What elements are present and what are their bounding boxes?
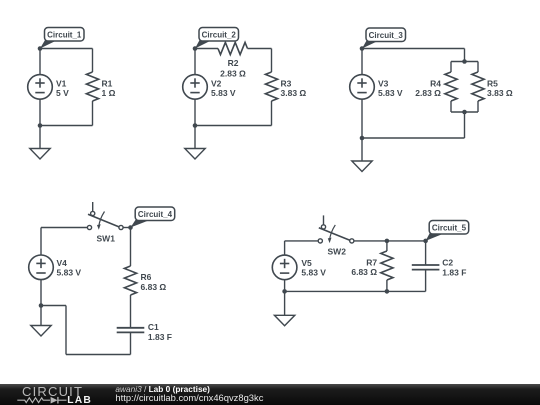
wire c4 V4 bottom lead — [40, 280, 42, 306]
wire c3 R4 bottom lead — [450, 101, 452, 112]
svg-text:http://circuitlab.com/cnx46qvz: http://circuitlab.com/cnx46qvz8g3kc — [115, 392, 263, 403]
wire c3 par top stub — [451, 61, 478, 63]
junction c1 bottom-left — [38, 123, 43, 128]
wire c4 bottom vert — [65, 306, 67, 355]
svg-text:V5: V5 — [301, 258, 312, 268]
junction c5 bottom-left — [282, 289, 287, 294]
wire c2 V2 top lead — [194, 49, 196, 76]
wire c3 V3 top lead — [361, 49, 363, 76]
wire c5 C2 bottom lead — [425, 270, 427, 292]
svg-text:3.83 Ω: 3.83 Ω — [487, 88, 513, 98]
voltage source V4 — [29, 255, 54, 280]
resistor R6 body — [124, 266, 136, 295]
wire c5 C2 top lead — [425, 241, 427, 265]
svg-text:1.83 F: 1.83 F — [442, 267, 466, 277]
svg-text:Circuit_2: Circuit_2 — [202, 30, 237, 39]
wire c1 bottom — [40, 125, 93, 127]
wire c4 R6 top lead — [130, 228, 132, 267]
wire c4 top — [41, 227, 87, 229]
wire c5 ground lead — [284, 291, 286, 315]
svg-text:SW2: SW2 — [328, 247, 347, 257]
svg-text:R2: R2 — [228, 58, 239, 68]
svg-text:Circuit_5: Circuit_5 — [432, 223, 467, 232]
svg-text:2.83 Ω: 2.83 Ω — [415, 88, 441, 98]
svg-text:C1: C1 — [148, 322, 159, 332]
wire c2 bottom — [195, 125, 272, 127]
svg-text:5 V: 5 V — [56, 88, 69, 98]
wire c3 ground lead — [361, 138, 363, 161]
svg-text:R4: R4 — [430, 78, 441, 88]
svg-text:R7: R7 — [366, 257, 377, 267]
wire c1 R1 bottom lead — [92, 101, 94, 126]
wire c5 V5 top lead — [284, 241, 286, 255]
wire c5 bottom — [285, 290, 426, 292]
wire c3 top — [362, 48, 465, 50]
wire c1 ground lead — [39, 126, 41, 149]
label callout Circuit_4 — [131, 207, 175, 228]
wire c3 R5 top lead — [477, 62, 479, 73]
wire c3 bottom — [362, 137, 465, 139]
wire c1 top — [40, 48, 93, 50]
svg-text:3.83 Ω: 3.83 Ω — [281, 88, 307, 98]
junction c3 top-left — [360, 46, 365, 51]
label callout Circuit_1 — [40, 28, 84, 49]
svg-text:5.83 V: 5.83 V — [57, 268, 82, 278]
wire c5 R7 bottom lead — [386, 280, 388, 291]
junction c2 bottom-left — [193, 123, 198, 128]
junction c1 top-left — [38, 46, 43, 51]
label callout Circuit_5 — [426, 221, 469, 241]
junction c2 top-left — [193, 46, 198, 51]
ground c4 — [31, 326, 51, 337]
svg-text:1.83 F: 1.83 F — [148, 332, 172, 342]
ground c5 — [274, 315, 294, 326]
label callout Circuit_3 — [362, 28, 406, 49]
svg-text:6.83 Ω: 6.83 Ω — [141, 282, 167, 292]
footer bar — [0, 384, 540, 405]
wire c2 R3 bottom lead — [271, 101, 273, 126]
wire c2 ground lead — [194, 126, 196, 149]
voltage source V5 — [272, 255, 297, 280]
resistor R3 body — [265, 72, 277, 101]
wire c3 par bottom stub — [451, 111, 478, 113]
capacitor C1 plates — [117, 328, 145, 333]
svg-text:V1: V1 — [56, 78, 67, 88]
wire c3 bottom drop — [464, 112, 466, 138]
wire c4 sw to corner — [123, 227, 130, 229]
wire c4 bottom left — [41, 305, 66, 307]
wire c1 R1 top lead — [92, 49, 94, 73]
svg-text:R1: R1 — [102, 78, 113, 88]
svg-text:R5: R5 — [487, 78, 498, 88]
voltage source V1 — [28, 75, 53, 100]
junction c3 bottom-left — [360, 136, 365, 141]
wire c2 R3 top lead — [271, 49, 273, 73]
svg-text:Circuit_3: Circuit_3 — [369, 31, 404, 40]
svg-text:5.83 V: 5.83 V — [211, 88, 236, 98]
wire c4 C1 bottom lead — [130, 332, 132, 354]
resistor R1 body — [86, 72, 98, 101]
label callout Circuit_2 — [195, 28, 239, 49]
ground c2 — [185, 149, 205, 160]
ground c1 — [30, 149, 50, 160]
wire c3 R4 top lead — [450, 62, 452, 73]
wire c3 R5 bottom lead — [477, 101, 479, 112]
svg-text:V4: V4 — [57, 258, 68, 268]
capacitor C2 plates — [412, 265, 440, 270]
svg-text:Circuit_1: Circuit_1 — [47, 30, 82, 39]
junction c3 par bottom — [462, 110, 467, 115]
svg-text:V2: V2 — [211, 78, 222, 88]
wire c5 V5 bottom lead — [284, 280, 286, 292]
wire c2 V2 bottom lead — [194, 99, 196, 126]
svg-text:2.83 Ω: 2.83 Ω — [220, 68, 246, 78]
wire c1 V1 bottom lead — [39, 99, 41, 126]
wire c3 top drop — [464, 49, 466, 62]
voltage source V2 — [183, 75, 208, 100]
svg-text:SW1: SW1 — [97, 233, 116, 243]
junction c5 corner — [423, 239, 428, 244]
junction c4 corner — [128, 225, 133, 230]
voltage source V3 — [350, 75, 375, 100]
svg-text:Circuit_4: Circuit_4 — [138, 210, 173, 219]
resistor R7 body — [381, 251, 393, 280]
svg-text:V3: V3 — [378, 78, 389, 88]
logo resistor-diode line and LAB — [17, 395, 92, 405]
svg-text:6.83 Ω: 6.83 Ω — [351, 267, 377, 277]
resistor R5 body — [472, 72, 484, 101]
svg-text:1 Ω: 1 Ω — [102, 88, 116, 98]
svg-text:R3: R3 — [281, 78, 292, 88]
svg-text:5.83 V: 5.83 V — [378, 88, 403, 98]
ground c3 — [352, 161, 372, 172]
wire c4 bottom horiz — [66, 354, 131, 356]
resistor R4 body — [445, 72, 457, 101]
wire c2 top left — [195, 48, 218, 50]
wire c1 V1 top lead — [39, 49, 41, 76]
wire c4 ground lead — [40, 306, 42, 326]
wire c5 sw to cap — [354, 240, 425, 242]
wire c4 V4 top lead — [40, 228, 42, 256]
wire c5 R7 top lead — [386, 241, 388, 251]
junction c5 R7 bottom — [385, 289, 390, 294]
wire c5 top left — [285, 240, 319, 242]
junction c3 par top — [462, 59, 467, 64]
wire c2 top right — [248, 48, 272, 50]
junction c5 R7 top — [385, 239, 390, 244]
switch SW1 — [87, 202, 123, 230]
svg-text:5.83 V: 5.83 V — [301, 268, 326, 278]
wire c4 R6-C1 lead — [130, 295, 132, 328]
switch SW2 — [318, 215, 354, 243]
wire c3 V3 bottom lead — [361, 99, 363, 138]
svg-text:C2: C2 — [442, 258, 453, 268]
resistor R2 body — [218, 42, 248, 54]
svg-text:R6: R6 — [141, 272, 152, 282]
svg-text:LAB: LAB — [67, 395, 92, 405]
junction c4 bottom-left — [39, 303, 44, 308]
